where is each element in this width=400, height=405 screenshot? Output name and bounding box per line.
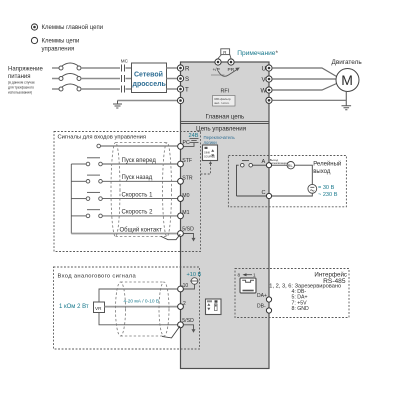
svg-text:Общий контакт: Общий контакт (120, 226, 162, 233)
supply voltage label (8, 67, 43, 95)
relay supply source (308, 184, 317, 193)
ground symbol input (113, 101, 122, 109)
svg-text:R: R (223, 50, 226, 55)
svg-text:4-20 мА / 0-10 В: 4-20 мА / 0-10 В (124, 299, 160, 305)
shield drain control (161, 234, 180, 240)
terminal R (177, 65, 190, 72)
terminal 2 (178, 301, 186, 310)
svg-text:M: M (341, 72, 353, 88)
svg-text:Примечание*: Примечание* (237, 50, 278, 57)
svg-text:использования): использования) (8, 91, 32, 95)
svg-text:1 кОм 2 Вт: 1 кОм 2 Вт (59, 304, 89, 310)
terminal M0 (178, 193, 190, 202)
wire reactor to S (167, 78, 181, 80)
terminal STF (178, 158, 193, 167)
terminal PC (178, 140, 190, 149)
wire PE to motor ground (272, 99, 346, 101)
switch M1 (speed 2) (71, 210, 177, 218)
contactor MC pole 3 (122, 86, 125, 93)
wire phase L3 to contactor (81, 88, 120, 90)
svg-text:Пуск назад: Пуск назад (122, 175, 153, 181)
RS-485 pin assignments (269, 284, 341, 313)
terminal U (262, 65, 273, 72)
svg-text:A: A (262, 159, 266, 165)
svg-text:Скорость 1: Скорость 1 (122, 192, 154, 198)
relay return wire (272, 193, 312, 196)
switch STR (reverse) (71, 175, 177, 183)
svg-text:(в данном случае: (в данном случае (8, 81, 35, 85)
svg-text:1: 1 (253, 273, 256, 278)
svg-text:U: U (262, 65, 266, 72)
logic switch label (204, 135, 236, 145)
motor ground symbol (342, 92, 352, 110)
PC wire stub (97, 144, 178, 148)
terminal 5/SD control (178, 227, 194, 237)
terminal A (262, 159, 272, 168)
switch M0 (speed 1) (71, 192, 177, 200)
line reactor (132, 63, 167, 93)
legend main-circuit terminal symbol (31, 24, 103, 31)
terminal C (262, 190, 272, 199)
svg-text:Клеммы главной цепи: Клеммы главной цепи (42, 24, 104, 31)
jumper removal arrow (211, 68, 240, 77)
breaker pole 2 (59, 74, 81, 81)
svg-text:5/SD: 5/SD (182, 227, 194, 233)
svg-text:вкл. / откл.: вкл. / откл. (215, 101, 230, 105)
wire 5/SD to ground arrow (183, 234, 195, 242)
svg-text:+/P: +/P (213, 67, 220, 73)
contactor MC pole 2 (122, 75, 125, 82)
svg-text:выход: выход (313, 169, 331, 175)
terminal PE input (177, 97, 183, 103)
svg-text:питания: питания (8, 74, 31, 80)
terminal M1 (178, 210, 190, 219)
svg-text:RFI: RFI (221, 89, 230, 95)
RJ45 connector (240, 278, 256, 293)
svg-text:управления: управления (42, 47, 75, 53)
svg-text:SINK: SINK (204, 151, 210, 155)
wire V to motor (272, 78, 336, 80)
svg-text:STR: STR (182, 176, 193, 182)
logic selector switch (203, 145, 218, 161)
analog input dashed box (54, 267, 200, 349)
motor M (332, 59, 363, 92)
wire phase L1 to contactor (81, 67, 120, 69)
+10V source node (183, 278, 198, 289)
svg-text:T: T (185, 86, 189, 93)
ground wire input (118, 100, 181, 102)
svg-text:~ 230 В: ~ 230 В (318, 192, 338, 198)
svg-text:Клеммы цепи: Клеммы цепи (42, 39, 80, 45)
breaker pole 1 (59, 63, 81, 70)
svg-text:Сетевой: Сетевой (134, 70, 163, 78)
svg-text:+10 В: +10 В (187, 272, 202, 278)
svg-text:для трехфазного: для трехфазного (8, 86, 34, 90)
wire phase L2 to reactor (126, 78, 132, 80)
relay output label (313, 160, 341, 175)
svg-text:5/SD: 5/SD (182, 318, 194, 324)
svg-text:DB-: DB- (257, 304, 266, 310)
control inputs dashed box (54, 132, 201, 252)
svg-text:Главная цепь: Главная цепь (206, 114, 245, 121)
wire phase L1 to reactor (126, 67, 132, 69)
svg-text:Скорость 2: Скорость 2 (122, 210, 154, 216)
wire VR low end to 5/SD (99, 313, 178, 325)
svg-text:Релейный: Релейный (313, 160, 341, 167)
wire W to motor (272, 84, 337, 91)
RS-485 interface label (314, 271, 347, 284)
alarm output tiny label (270, 158, 288, 165)
RFI filter (213, 89, 236, 107)
svg-text:Напряжение: Напряжение (8, 67, 43, 73)
terminal +/P (213, 59, 222, 73)
svg-text:Пуск вперед: Пуск вперед (122, 158, 157, 164)
svg-text:8: 8 (238, 273, 241, 278)
terminal DB- (257, 304, 272, 314)
svg-text:дроссель: дроссель (133, 81, 167, 88)
wire U to motor (272, 68, 337, 77)
terminal STR (178, 176, 193, 185)
terminal PR (228, 59, 235, 73)
wire phase L2 to contactor (81, 78, 120, 80)
wire phase L1 (52, 67, 59, 69)
common wire to 5/SD (71, 233, 177, 235)
wire phase L3 to reactor (126, 88, 132, 90)
terminal 10 (178, 283, 189, 292)
svg-text:24В: 24В (189, 133, 199, 139)
potentiometer VR (59, 302, 105, 313)
svg-text:МС: МС (121, 59, 129, 64)
svg-text:S: S (185, 76, 189, 83)
terminal W (261, 87, 273, 94)
terminal DA+ (257, 293, 272, 302)
U/I selector switch (206, 299, 222, 315)
cable shield control (111, 143, 172, 237)
brake resistor R (218, 49, 231, 59)
RS-485 dashed box (235, 269, 349, 318)
terminal T (177, 86, 189, 93)
terminal 5/SD analog (178, 318, 194, 328)
inverter body (181, 62, 270, 369)
svg-text:логики: логики (204, 140, 218, 145)
terminal V (262, 76, 273, 83)
svg-text:Двигатель: Двигатель (332, 59, 363, 66)
legend control-circuit terminal symbol (31, 37, 79, 52)
svg-text:PR: PR (228, 67, 235, 73)
relay output dashed box (228, 156, 346, 207)
svg-text:сигнализации: сигнализации (270, 161, 288, 165)
wire reactor to R (167, 67, 181, 69)
contactor MC pole 1 (122, 65, 125, 72)
breaker pole 3 (59, 84, 81, 91)
dashed link to logic switch (201, 161, 213, 174)
svg-text:C: C (262, 190, 266, 196)
wire VR wiper to terminal 2 (105, 306, 178, 308)
svg-text:Вход аналогового сигнала: Вход аналогового сигнала (58, 274, 137, 280)
svg-text:RL: RL (288, 163, 294, 168)
terminal S (177, 75, 189, 82)
relay load wire (295, 165, 313, 184)
wire phase L3 (52, 88, 59, 90)
wire terminal 10 to potentiometer (99, 289, 178, 302)
relay contact (237, 161, 267, 196)
svg-text:Сигналы для входов управления: Сигналы для входов управления (58, 135, 147, 141)
section separator (181, 121, 270, 123)
cable shield analog (116, 282, 170, 336)
wire 5/SD analog to ground arrow (183, 325, 195, 333)
wire phase L2 (52, 78, 59, 80)
24V supply (184, 133, 199, 147)
relay lamp RL (272, 162, 295, 169)
svg-text:DA+: DA+ (257, 293, 267, 299)
svg-text:R: R (185, 65, 190, 72)
shield drain analog (162, 326, 180, 338)
svg-text:= 30 В: = 30 В (318, 185, 335, 191)
terminal PE output (266, 97, 272, 103)
svg-text:8: GND: 8: GND (292, 306, 310, 312)
svg-text:VR: VR (95, 306, 102, 311)
common bus (70, 164, 72, 234)
svg-text:Цепь управления: Цепь управления (196, 126, 246, 133)
switch STF (forward) (71, 158, 177, 166)
relay voltage values (318, 185, 338, 198)
RJ45 pin order arrow (238, 273, 257, 278)
wire reactor to T (167, 88, 181, 90)
